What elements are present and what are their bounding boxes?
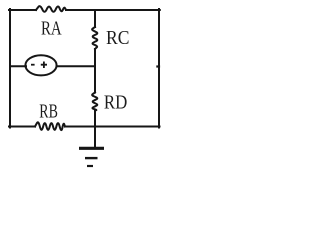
svg-text:RC: RC [106, 27, 129, 49]
wire top left segment [9, 9, 36, 11]
wire bottom right segment [65, 126, 160, 128]
resistor RD [92, 93, 97, 111]
source minus sign [31, 64, 35, 66]
svg-text:RA: RA [41, 18, 62, 40]
resistor RB [35, 122, 65, 130]
svg-text:RB: RB [39, 101, 58, 123]
node right nub [157, 65, 159, 67]
wire middle vertical top [94, 10, 96, 27]
ground [79, 148, 104, 166]
resistor RC [92, 27, 97, 49]
resistor RA [36, 6, 66, 12]
svg-text:RD: RD [104, 91, 127, 113]
source plus sign [41, 62, 47, 69]
wire middle vertical mid [94, 49, 96, 93]
wire left vertical [9, 9, 11, 128]
source V1 ellipse [25, 55, 56, 75]
wire source right [57, 65, 96, 67]
wire middle vertical bottom [94, 111, 96, 149]
wire bottom left segment [9, 126, 35, 128]
wire right vertical [158, 9, 160, 128]
wire top right segment [66, 9, 160, 11]
wire source left [10, 65, 26, 67]
